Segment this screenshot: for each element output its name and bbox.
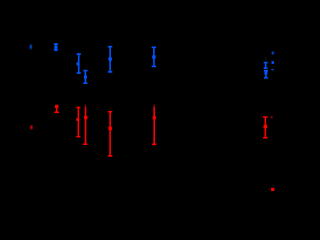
blue errorbar point B5 xyxy=(108,47,112,72)
blue errorbar point B6 xyxy=(152,47,156,66)
blue marker B5 xyxy=(108,57,111,60)
red errorbar point R5 xyxy=(108,112,112,156)
blue marker B2 xyxy=(54,46,57,49)
blue errorbar point B7 xyxy=(264,63,268,69)
red marker R3 xyxy=(76,118,79,121)
blue errorbar point B8 xyxy=(264,71,268,78)
red errorbar point R3 xyxy=(76,108,80,137)
blue errorbar point B3 xyxy=(77,54,81,73)
red marker R7 xyxy=(264,125,268,129)
red errorbar point R4 (fading top, no top cap) xyxy=(83,104,87,144)
blue errorbar point B2 xyxy=(54,44,58,50)
red small tick T1 xyxy=(271,116,272,118)
blue marker B6 xyxy=(152,55,155,58)
blue small dash D3 xyxy=(271,69,273,70)
red square marker S1 (bottom right) xyxy=(271,188,274,191)
red marker R4 xyxy=(84,116,87,119)
red errorbar point R2 xyxy=(54,106,59,112)
blue small dot D1 xyxy=(272,52,274,55)
blue marker B3 xyxy=(76,62,79,65)
blue faint dot above B7 xyxy=(265,58,267,59)
blue small dot D2 xyxy=(272,61,274,64)
red errorbar point R1 (clipped marker at left edge) xyxy=(30,125,32,129)
blue errorbar point B4 xyxy=(83,71,87,84)
red errorbar point R6 (fading top, no top cap) xyxy=(152,104,156,145)
blue marker B4 xyxy=(84,76,87,79)
red marker R6 xyxy=(153,116,156,119)
blue marker B8 xyxy=(264,72,267,75)
red marker R2 xyxy=(55,105,58,108)
red errorbar point R7 xyxy=(263,117,268,138)
blue errorbar point B1 (clipped marker at left edge) xyxy=(30,45,32,50)
red marker R5 xyxy=(108,127,112,130)
